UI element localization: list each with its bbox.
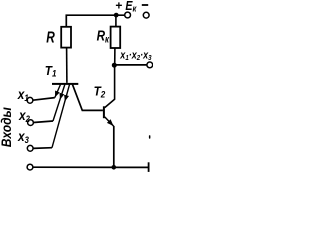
wire output <box>114 64 147 66</box>
transistor T1 emitter 3 <box>52 85 70 148</box>
svg-text:R: R <box>46 28 55 46</box>
bottom rail end tick <box>148 162 150 172</box>
svg-text:Входы: Входы <box>0 107 14 147</box>
label Ek <box>125 0 137 14</box>
wire Rk bottom lead to output node <box>114 48 116 66</box>
transistor T1 base bar <box>52 83 78 85</box>
speck mark right edge <box>149 135 151 139</box>
label T1 <box>45 63 57 78</box>
terminal +Ek <box>125 12 131 18</box>
terminal x1 <box>27 97 33 103</box>
junction dot output node <box>112 63 117 68</box>
transistor T2 emitter <box>105 117 114 126</box>
wire T2 emitter to bottom rail <box>113 126 115 167</box>
transistor T2 base bar <box>103 106 105 118</box>
transistor T2 collector <box>105 65 115 107</box>
label R <box>46 28 55 46</box>
label Rk <box>97 27 110 44</box>
svg-text:Eк: Eк <box>125 0 137 14</box>
label minus <box>142 4 148 6</box>
wire input x3 <box>33 147 52 150</box>
label x2 <box>18 107 30 124</box>
terminal minus <box>143 12 149 18</box>
junction dot top (Rk to rail) <box>114 13 119 18</box>
label x1x2x3 output <box>119 50 151 63</box>
label x3 <box>17 128 29 145</box>
wire R bottom lead to T1 base <box>66 48 68 83</box>
wire top supply rail <box>66 15 124 27</box>
transistor T1 collector to T2 base <box>73 85 103 111</box>
label Vhody (inputs) <box>0 107 14 147</box>
terminal bottom common <box>27 164 33 170</box>
terminal x3 <box>27 145 33 151</box>
label x1 <box>17 86 29 103</box>
resistor R <box>61 27 71 48</box>
transistor T1 emitter 1 <box>55 85 61 98</box>
resistor Rk <box>111 27 121 48</box>
terminal output <box>147 62 153 68</box>
svg-text:+: + <box>115 0 122 13</box>
wire bottom rail <box>33 166 149 168</box>
junction dot bottom (T2 emitter to rail) <box>112 165 117 170</box>
wire input x2 <box>33 121 53 123</box>
label T2 <box>94 84 106 99</box>
wire input x1 <box>33 98 55 101</box>
transistor T1 emitter 2 <box>53 85 65 121</box>
svg-text:x1·x2·x3: x1·x2·x3 <box>119 50 151 63</box>
terminal x2 <box>28 120 34 126</box>
wire Rk top lead <box>115 15 117 26</box>
